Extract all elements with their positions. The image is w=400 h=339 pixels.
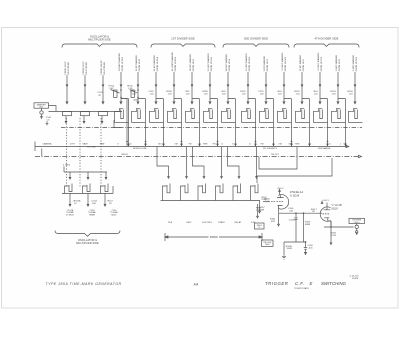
tube label V161B 6DJ8	[332, 203, 343, 210]
svg-text:OM: OM	[278, 144, 282, 146]
value label R194 120	[347, 91, 353, 96]
junction node	[217, 141, 219, 143]
svg-text:+6DB: +6DB	[133, 99, 139, 101]
lower link wire	[284, 242, 306, 252]
marker input wire 15	[317, 52, 323, 103]
svg-text:TM 2 ET: TM 2 ET	[271, 154, 280, 156]
svg-text:10K: 10K	[92, 203, 96, 205]
svg-text:1 MSEC MARKER: 1 MSEC MARKER	[118, 53, 121, 72]
svg-text:OM: OM	[288, 144, 292, 146]
underbrace oscillator section	[55, 231, 120, 237]
svg-text:FROM V161 B: FROM V161 B	[285, 56, 287, 71]
svg-text:FROM V125: FROM V125	[339, 58, 341, 71]
svg-text:TW: TW	[188, 144, 191, 146]
wafer feed wire	[64, 171, 107, 173]
wafer row bottom rail	[161, 200, 261, 202]
resistor R163L label	[286, 246, 293, 250]
+100V supply (V161B plate)	[321, 200, 329, 207]
marker input wire 17	[352, 54, 358, 103]
svg-text:RELAY: RELAY	[235, 221, 242, 224]
wafer output drop	[69, 193, 71, 204]
marker input wire 1	[65, 61, 70, 104]
svg-text:SWITCHING: SWITCHING	[321, 281, 347, 286]
value label C191 120	[258, 91, 264, 96]
group bracket 2ND DIVIDER SIDE	[223, 38, 289, 48]
svg-text:FROM V143: FROM V143	[139, 58, 141, 71]
divider wafer feed	[256, 147, 258, 176]
switch contact cell wire x=355	[349, 108, 363, 122]
resistor R161 label	[256, 208, 262, 212]
gang dashed link	[66, 118, 68, 188]
svg-text:4 JEE2: 4 JEE2	[63, 164, 71, 166]
svg-text:SW500: SW500	[210, 236, 219, 239]
wafer output drop	[87, 193, 89, 204]
wire link and drop to bus	[138, 99, 146, 146]
grid label B16T	[311, 209, 317, 213]
feed drop with arrow	[105, 172, 107, 177]
switch contact cell wire x=284	[278, 108, 292, 122]
wafer bottom rail	[62, 186, 113, 193]
junction node	[181, 141, 183, 143]
V161B cathode	[324, 218, 331, 227]
divider wafer contact	[198, 184, 206, 201]
gang linkage dash-dot line (contact deck)	[61, 127, 362, 129]
svg-text:.5 USEC MARKER: .5 USEC MARKER	[281, 52, 284, 71]
resistor R142 callout	[128, 85, 139, 101]
connector box MARKER OUT	[34, 103, 49, 109]
value label R53 120	[278, 91, 283, 96]
switch contact cell wire x=302	[296, 108, 310, 122]
capacitor C141 callout	[98, 85, 122, 98]
contact elbow	[114, 120, 121, 128]
wire link and drop to bus	[248, 99, 256, 146]
V161B plate	[324, 207, 331, 210]
capacitor C160 label	[288, 208, 294, 212]
tube label V161A 6DJ8	[290, 191, 303, 197]
ground	[282, 252, 286, 259]
svg-text:OM: OM	[174, 144, 178, 146]
svg-text:TW: TW	[212, 144, 215, 146]
junction node	[145, 141, 147, 143]
divider wafer feed	[221, 147, 223, 176]
trigger jack terminal	[356, 224, 358, 226]
svg-text:TYPE 180A TIME-MARK GENERAT: TYPE 180A TIME-MARK GENERATOR	[46, 282, 122, 286]
trimmer label C147A	[66, 209, 75, 217]
switch contact cell wire x=174	[168, 108, 182, 122]
revision note	[349, 275, 359, 279]
svg-text:FROM V152: FROM V152	[193, 58, 195, 71]
routing loop wire A	[259, 147, 297, 169]
trig out box	[262, 240, 274, 246]
svg-text:C164L: C164L	[289, 220, 296, 222]
switch contact cell wire x=210	[204, 108, 218, 122]
group bracket OSCILLATOR &	[62, 36, 137, 48]
value label R187 120	[130, 91, 136, 96]
svg-text:10 USEC MARKER: 10 USEC MARKER	[171, 52, 174, 72]
svg-text:680R: 680R	[305, 224, 311, 226]
marker input wire 3	[101, 60, 106, 104]
+100V supply (V161A plate)	[277, 188, 285, 194]
svg-text:½ V2.2B: ½ V2.2B	[332, 203, 343, 207]
value label R191 120	[240, 91, 246, 96]
cathode resistor R168	[331, 221, 337, 243]
svg-text:1 SEC MARKER: 1 SEC MARKER	[335, 54, 338, 71]
divider wafer feed	[157, 147, 169, 176]
svg-text:5T MULT: 5T MULT	[66, 215, 75, 217]
svg-text:500 KC MARKER: 500 KC MARKER	[225, 54, 228, 72]
svg-text:1.000 +: 1.000 +	[353, 222, 361, 224]
value label R188 120	[166, 91, 172, 96]
bus stub left	[41, 149, 43, 157]
junction node	[305, 241, 307, 243]
wire link and drop to bus	[320, 99, 328, 146]
grid stopper wire	[263, 201, 270, 203]
value label R52 120	[222, 91, 227, 96]
svg-text:DISCHARGE: DISCHARGE	[318, 147, 331, 150]
svg-text:10 MC MARKER: 10 MC MARKER	[299, 54, 302, 71]
resistor R162 label	[262, 197, 268, 201]
oscillator wafer contact	[65, 184, 73, 194]
marker input wire 11	[245, 53, 251, 104]
divider wafer feed	[228, 147, 240, 176]
switch contact cell wire x=248	[242, 108, 256, 122]
value label R54 120	[314, 91, 319, 96]
value label R192 120	[294, 91, 300, 96]
feed drop with arrow	[69, 172, 71, 177]
switch contact at wire x=85	[81, 112, 90, 116]
V161A plate	[277, 195, 284, 198]
svg-text:RELY: RELY	[186, 222, 192, 224]
svg-text:MONOCLONE: MONOCLONE	[133, 148, 147, 150]
V161B grid	[323, 213, 330, 215]
selector bus line	[35, 146, 347, 148]
trimmer label C148	[88, 210, 96, 217]
dimension line SW500	[165, 233, 262, 241]
svg-text:GATE: GATE	[82, 143, 88, 146]
svg-text:FROM 10 KC: FROM 10 KC	[65, 61, 67, 75]
svg-text:PLATE: PLATE	[352, 277, 359, 280]
V161A grid	[271, 201, 284, 203]
svg-text:6DJ8: 6DJ8	[332, 207, 339, 210]
marker input wire 10	[225, 54, 231, 104]
marker input wire 6	[153, 55, 159, 104]
svg-text:.1 USEC MARKER: .1 USEC MARKER	[317, 52, 320, 71]
svg-text:FROM V167 B: FROM V167 B	[321, 56, 323, 71]
svg-text:PK TUNE: PK TUNE	[87, 146, 96, 148]
svg-text:TRIGGER: TRIGGER	[265, 281, 288, 286]
junction node	[255, 141, 257, 143]
value label R157	[108, 200, 114, 204]
cathode bus wire	[279, 213, 323, 224]
svg-text:ORN B: ORN B	[121, 154, 128, 156]
divider wafer contact	[251, 184, 259, 201]
feed drop with arrow	[87, 172, 89, 177]
coupling capacitor C164	[289, 213, 298, 242]
capacitor C166	[304, 242, 314, 255]
value label R189 120	[202, 91, 208, 96]
divider wafer feed	[186, 147, 188, 176]
wire from marker out	[49, 106, 57, 112]
R161 wire	[257, 204, 259, 216]
svg-text:5 SEC MARKER: 5 SEC MARKER	[352, 54, 355, 71]
divider wafer feed	[193, 147, 205, 176]
svg-text:100R: 100R	[287, 248, 293, 250]
svg-text:MULTIPLIER: MULTIPLIER	[86, 61, 88, 74]
svg-text:LHD TRIG: LHD TRIG	[202, 222, 212, 224]
wire link and drop to bus	[284, 99, 292, 146]
svg-text:1 SN: 1 SN	[251, 222, 256, 224]
svg-text:C.F.: C.F.	[295, 281, 305, 286]
resistor R163	[304, 213, 312, 242]
svg-text:1ST DIVIDER SIDE: 1ST DIVIDER SIDE	[171, 38, 195, 41]
group bracket 1ST DIVIDER SIDE	[151, 38, 215, 48]
switch contact at wire x=103	[99, 112, 108, 116]
svg-text:4TH DIVIDER SIDE: 4TH DIVIDER SIDE	[315, 38, 339, 41]
svg-text:PLL DELENTS: PLL DELENTS	[263, 148, 277, 150]
svg-text:FROM V167: FROM V167	[303, 58, 305, 71]
svg-text:CAMERA: CAMERA	[43, 143, 53, 146]
terminal J140	[41, 108, 43, 111]
switch contact at wire x=67	[63, 112, 72, 116]
svg-text:FROM V152 B: FROM V152 B	[211, 56, 213, 71]
svg-text:2ND DIVIDER SIDE: 2ND DIVIDER SIDE	[244, 38, 268, 41]
marker input wire 14	[299, 54, 305, 103]
svg-text:MO: MO	[158, 144, 162, 146]
svg-text:5 MC MARKER: 5 MC MARKER	[263, 56, 266, 72]
svg-text:100R: 100R	[265, 244, 270, 246]
long drop wire	[121, 99, 127, 146]
svg-text:½ 6DJ8: ½ 6DJ8	[290, 193, 300, 197]
value label C187 120	[148, 91, 154, 96]
contact rail (oscillator group)	[49, 111, 123, 113]
label stub wire	[63, 166, 65, 172]
svg-text:MULTIPLIER: MULTIPLIER	[104, 61, 106, 74]
switch contact cell wire x=228	[222, 108, 236, 122]
svg-text:4.7R: 4.7R	[331, 235, 336, 237]
svg-text:FROM V145 B: FROM V145 B	[175, 56, 177, 71]
gang dashed link	[79, 118, 81, 188]
marker input wire 7	[171, 52, 177, 104]
terminal box TW	[255, 223, 265, 229]
divider wafer contact	[163, 184, 171, 201]
bus end tick	[34, 142, 36, 152]
svg-text:1M: 1M	[312, 211, 315, 213]
ganged switch linkage line (dash-dot)	[35, 156, 359, 158]
svg-text:+100 V: +100 V	[322, 200, 330, 202]
svg-text:5 USEC MARKER: 5 USEC MARKER	[207, 53, 210, 71]
svg-text:J: J	[309, 144, 310, 146]
oscillator wafer contact	[83, 184, 91, 194]
svg-text:FROM V154: FROM V154	[229, 58, 231, 71]
svg-text:50 KC MARKER: 50 KC MARKER	[153, 55, 156, 71]
value label C152	[91, 200, 98, 204]
svg-text:FROM 50 KC: FROM 50 KC	[83, 61, 85, 75]
svg-text:FROM V135 B: FROM V135 B	[122, 56, 124, 71]
wafer output drop	[104, 193, 106, 204]
wire link and drop to bus	[192, 99, 200, 146]
junction nodes on cathode bus	[295, 212, 297, 214]
divider wafer contact	[216, 184, 224, 201]
oscillator wafer contact	[101, 184, 109, 194]
wire link and drop to bus	[156, 99, 164, 146]
marker input wire 8	[189, 54, 195, 104]
svg-text:E: E	[310, 281, 313, 286]
svg-text:TWR: TWR	[203, 144, 208, 146]
triode V161B envelope	[320, 207, 330, 221]
svg-text:MULTIPLIER: MULTIPLIER	[68, 61, 70, 74]
wire link and drop to bus	[121, 99, 129, 146]
svg-text:START: START	[218, 221, 225, 224]
svg-text:TIME: TIME	[100, 144, 106, 146]
svg-text:2.2M: 2.2M	[256, 210, 261, 212]
svg-text:FROM V154 B: FROM V154 B	[249, 56, 251, 71]
svg-text:FROM V161: FROM V161	[267, 58, 269, 71]
marker input wire 9	[207, 53, 213, 104]
wire link and drop to bus	[228, 99, 236, 146]
routing loop wire B	[257, 158, 332, 183]
svg-text:FROM V125 B: FROM V125 B	[356, 56, 358, 71]
R167 drop wire	[259, 201, 261, 212]
svg-text:MULT: MULT	[111, 215, 117, 217]
svg-text:MULTIPLIER SIDE: MULTIPLIER SIDE	[88, 39, 111, 42]
marker input wire 12	[263, 56, 269, 104]
svg-text:100 KC MARKER: 100 KC MARKER	[189, 54, 192, 72]
output wire to trigger jack	[324, 226, 354, 228]
svg-text:TW: TW	[260, 144, 263, 146]
switch contact cell wire x=156	[150, 108, 164, 122]
junction node	[327, 141, 329, 143]
wire link and drop to bus	[266, 99, 274, 146]
trimmer label C149	[110, 210, 118, 217]
svg-text:J: J	[339, 144, 340, 146]
svg-text:AA: AA	[193, 282, 200, 286]
marker input wire 13	[281, 52, 287, 103]
svg-text:12TH: 12TH	[69, 144, 75, 146]
svg-text:FROM V145 A: FROM V145 A	[156, 57, 159, 72]
resistor R167 label	[258, 207, 266, 211]
divider wafer contact	[233, 184, 241, 201]
switch contact cell wire x=121	[115, 108, 129, 122]
svg-text:1.5K: 1.5K	[128, 88, 133, 90]
svg-text:TWR: TWR	[295, 144, 300, 146]
wire link and drop to bus	[210, 99, 218, 146]
wire link and drop to bus	[302, 99, 310, 146]
value label R51 120	[186, 91, 191, 96]
switch contact cell wire x=192	[186, 108, 200, 122]
value label R151A	[73, 199, 82, 204]
marker input wire 2	[83, 61, 88, 104]
group bracket 4TH DIVIDER SIDE	[294, 38, 359, 48]
gang dashed link	[100, 118, 102, 188]
title TRIGGER C.F. E SWITCHING	[265, 281, 347, 286]
switch contact cell wire x=266	[260, 108, 274, 122]
V161A cathode	[278, 205, 283, 212]
grid resistor R160	[265, 198, 271, 202]
marker input wire 4	[118, 53, 124, 104]
switch contact cell wire x=338	[332, 108, 346, 122]
svg-text:TO BODY DATE: TO BODY DATE	[294, 287, 309, 290]
svg-text:10 KC MARKER: 10 KC MARKER	[135, 55, 138, 71]
switch contact cell wire x=320	[314, 108, 328, 122]
svg-text:+100 V: +100 V	[277, 188, 285, 190]
svg-text:PLA: PLA	[168, 221, 173, 224]
cathode resistor R164 label	[270, 218, 276, 222]
capacitor C140	[46, 117, 52, 125]
junction node	[291, 141, 293, 143]
svg-text:FROM 100 KC: FROM 100 KC	[101, 60, 103, 75]
svg-text:47R: 47R	[271, 221, 275, 223]
triode V161A envelope	[278, 195, 288, 209]
svg-text:1 USEC MARKER: 1 USEC MARKER	[245, 53, 248, 71]
svg-text:TIMER: TIMER	[89, 215, 96, 217]
trigger output box	[349, 218, 365, 224]
svg-text:75: 75	[258, 227, 260, 229]
marker input wire 5	[135, 55, 141, 104]
wire link and drop to bus	[174, 99, 182, 146]
value label R193 120	[330, 91, 336, 96]
svg-text:MULTIPLIER SIDE: MULTIPLIER SIDE	[76, 242, 99, 245]
marker input wire 16	[335, 54, 341, 103]
wire link and drop to bus	[338, 99, 346, 146]
divider wafer contact	[181, 184, 189, 201]
switch contact cell wire x=138	[132, 108, 146, 122]
